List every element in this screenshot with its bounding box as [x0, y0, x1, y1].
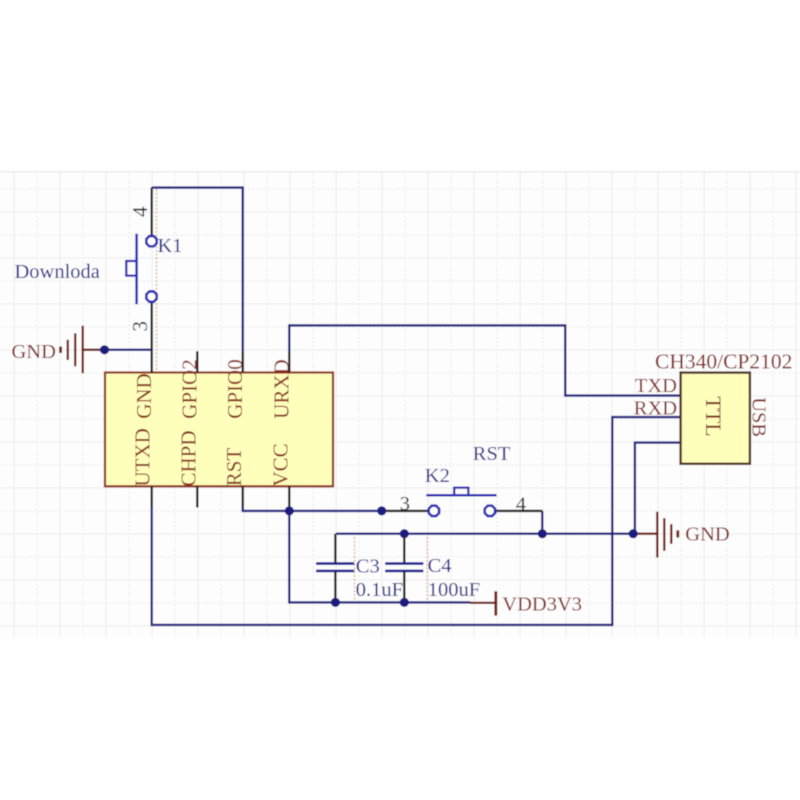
ground symbol right — [637, 512, 678, 558]
IC USB-TTL module body — [681, 373, 750, 464]
IC U1 ESP module body — [105, 373, 333, 487]
pin number 4 (K2) — [516, 494, 526, 516]
node C4 bottom junction — [400, 598, 409, 607]
svg-text:GND: GND — [132, 373, 156, 419]
net highlight line (C3) — [354, 537, 356, 602]
value 0.1uF — [356, 579, 403, 601]
svg-text:VCC: VCC — [269, 443, 293, 486]
node RST/VCC crossing — [285, 506, 294, 515]
svg-text:100uF: 100uF — [428, 579, 480, 601]
ground symbol left — [61, 326, 101, 373]
svg-text:RST: RST — [222, 448, 246, 487]
svg-text:GND: GND — [12, 341, 56, 363]
wire GND net horizontal — [336, 533, 633, 535]
pin label GND — [132, 373, 156, 419]
pin label URXD — [270, 359, 294, 419]
label C3 — [356, 556, 380, 578]
svg-text:CH340/CP2102: CH340/CP2102 — [655, 350, 792, 374]
svg-text:C4: C4 — [428, 555, 452, 577]
svg-text:4: 4 — [128, 206, 152, 217]
label TTL — [701, 396, 726, 436]
svg-text:0.1uF: 0.1uF — [356, 579, 403, 601]
label Downloda — [15, 261, 100, 283]
pin label GPIO2 — [178, 359, 202, 419]
node K2 to GND net — [538, 529, 547, 538]
pin number 3 (K1) — [128, 321, 152, 332]
svg-text:GND: GND — [685, 523, 729, 545]
pin label CHPD — [177, 430, 201, 486]
svg-text:GPIO2: GPIO2 — [178, 359, 202, 419]
wire K2 pin4 corner down — [541, 511, 543, 534]
label RST — [473, 443, 511, 465]
svg-text:RXD: RXD — [634, 398, 677, 420]
pin RST stub — [242, 486, 244, 507]
node C4 top junction — [400, 529, 409, 538]
label C4 — [428, 555, 452, 577]
label USB — [747, 397, 769, 437]
label CH340/CP2102 — [655, 350, 792, 374]
wire VCC to VDD3V3 — [289, 507, 470, 602]
pushbutton K2 — [382, 488, 543, 516]
svg-text:UTXD: UTXD — [131, 428, 155, 486]
pin label VCC — [269, 443, 293, 486]
svg-text:3: 3 — [400, 493, 410, 515]
value 100uF — [428, 579, 480, 601]
label K1 — [158, 235, 183, 257]
pin label TXD — [635, 375, 677, 397]
capacitor C4 — [385, 534, 423, 603]
svg-text:RST: RST — [473, 443, 511, 465]
wire USB-GND pin down — [635, 443, 681, 534]
wire GND-left to K1 pin3 — [99, 349, 152, 351]
pin number 3 (K2) — [400, 493, 410, 515]
wire URXD to TXD — [289, 325, 680, 395]
svg-text:GPIO0: GPIO0 — [223, 359, 247, 419]
pin number 4 (K1) — [128, 206, 152, 217]
pin UTXD stub — [151, 486, 153, 507]
label GND left — [12, 341, 56, 363]
svg-text:3: 3 — [128, 321, 152, 332]
pin label GPIO0 — [223, 359, 247, 419]
power symbol VDD3V3 — [470, 591, 496, 615]
pushbutton K1 — [126, 188, 156, 373]
node GND-left junction — [100, 345, 109, 354]
grid background — [0, 171, 800, 637]
svg-text:URXD: URXD — [270, 359, 294, 419]
pin CHPD stub — [196, 486, 198, 507]
svg-text:K2: K2 — [425, 465, 450, 487]
pin label UTXD — [131, 428, 155, 486]
svg-text:VDD3V3: VDD3V3 — [502, 593, 582, 615]
wire RXD to UTXD — [152, 417, 681, 625]
wire RST to K2 — [243, 507, 382, 511]
node RST wire end — [377, 506, 386, 515]
net highlight line (C4) — [426, 537, 428, 602]
node USB-GND junction — [629, 529, 638, 538]
svg-text:CHPD: CHPD — [177, 430, 201, 486]
net highlight line (K1 net) — [156, 189, 158, 372]
pin GPIO2 stub — [196, 351, 198, 372]
label K2 — [425, 465, 450, 487]
capacitor C3 — [316, 534, 354, 603]
svg-text:K1: K1 — [158, 235, 183, 257]
svg-text:TTL: TTL — [701, 396, 726, 436]
pin URXD stub — [288, 351, 290, 372]
pin label RST — [222, 448, 246, 487]
node C3 bottom junction — [331, 598, 340, 607]
svg-text:USB: USB — [747, 397, 769, 437]
label VDD3V3 — [502, 593, 582, 615]
pin GPIO0 stub — [242, 351, 244, 372]
pin VCC stub — [288, 486, 290, 507]
label GND right — [685, 523, 729, 545]
svg-text:C3: C3 — [356, 556, 380, 578]
svg-text:Downloda: Downloda — [15, 261, 100, 283]
svg-text:4: 4 — [516, 494, 526, 516]
pin label RXD — [634, 398, 677, 420]
svg-text:TXD: TXD — [635, 375, 677, 397]
wire K1 pin4 to GPIO0 — [152, 188, 243, 352]
